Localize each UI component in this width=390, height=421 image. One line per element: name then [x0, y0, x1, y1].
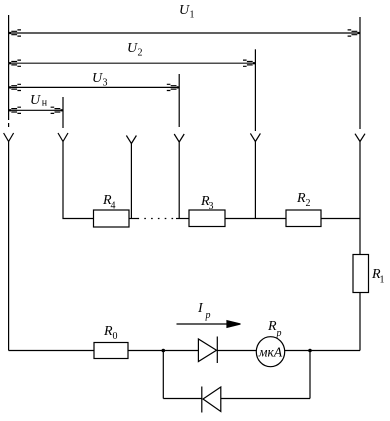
diode D1 [198, 337, 217, 364]
voltage range arrow U1 [9, 30, 360, 36]
svg-text:н: н [42, 98, 48, 109]
svg-text:2: 2 [138, 48, 143, 59]
label R2 [296, 191, 311, 209]
svg-text:1: 1 [190, 10, 195, 21]
node terminator line for U2 [254, 49, 256, 131]
resistor R1 [353, 255, 369, 293]
wire right rail below R1 [359, 293, 361, 351]
label Uh [30, 93, 48, 109]
wire left rail vertical [8, 15, 10, 120]
svg-text:3: 3 [209, 201, 214, 212]
tap arrow 2 [58, 133, 68, 142]
current arrow Ip [177, 321, 241, 328]
resistor R4 [94, 210, 130, 227]
svg-text:U: U [30, 93, 41, 108]
svg-text:4: 4 [111, 201, 116, 212]
svg-text:U: U [127, 41, 138, 56]
label U3 [92, 71, 108, 89]
voltage range arrow U2 [9, 60, 256, 66]
wire tap 4 stem [178, 142, 180, 219]
wire right rail top vertical [359, 17, 361, 129]
voltage range arrow U3 [9, 84, 180, 90]
wire bottom left horizontal to R0 [9, 350, 94, 352]
wire tap 5 stem [254, 142, 256, 219]
svg-text:U: U [179, 3, 190, 18]
resistor R0 [94, 343, 128, 359]
svg-text:R: R [103, 324, 113, 339]
wire bus R4 right [129, 218, 138, 220]
wire D2 to right vertical [221, 398, 310, 400]
svg-text:R: R [296, 191, 306, 206]
label U2 [127, 41, 143, 59]
tap arrow on left rail [4, 133, 14, 142]
wire bus R3 to R2 [225, 218, 286, 220]
node terminator line for Uh [62, 97, 64, 128]
wire dotted bus section [138, 218, 177, 220]
wire R0 to diode D1 [128, 350, 198, 352]
wire right rail to R1 [359, 142, 361, 255]
tap arrow 5 [250, 133, 260, 141]
label R0 [103, 324, 118, 342]
svg-text:p: p [205, 310, 211, 321]
wire tap 2 stem [63, 142, 94, 219]
tap arrow 3 [126, 136, 136, 144]
resistor R3 [189, 210, 225, 227]
wire bottom branch left vertical [162, 351, 164, 399]
svg-text:2: 2 [306, 198, 311, 209]
wire bottom right horizontal [285, 350, 360, 352]
svg-text:U: U [92, 71, 103, 86]
label R1 [371, 267, 385, 286]
label Rp [267, 319, 282, 339]
svg-text:R: R [267, 319, 277, 334]
label U1 [179, 3, 195, 21]
wire bottom branch to D2 [163, 398, 202, 400]
junction dot left [162, 349, 166, 353]
tap arrow 4 [174, 134, 184, 142]
resistor R2 [286, 210, 321, 227]
meter uA [256, 337, 284, 367]
diode D2 [202, 387, 221, 413]
svg-text:мкА: мкА [258, 345, 283, 360]
wire D1 to meter [217, 350, 256, 352]
svg-text:1: 1 [380, 275, 385, 286]
node terminator line for U3 [178, 74, 180, 127]
svg-text:p: p [276, 328, 282, 339]
voltage range arrow Uh [9, 107, 63, 113]
tap arrow on right rail [355, 134, 365, 142]
label Ip [197, 301, 211, 321]
svg-text:3: 3 [103, 78, 108, 89]
junction dot right [308, 349, 312, 353]
wire bottom branch right vertical [309, 351, 311, 399]
label R3 [200, 194, 214, 212]
wire bus R2 to right rail [321, 218, 360, 220]
wire tap 3 stem [130, 144, 132, 219]
wire bus to R3 [176, 218, 189, 220]
svg-text:0: 0 [113, 331, 118, 342]
label R4 [102, 193, 116, 212]
wire left rail dash [8, 123, 10, 127]
wire left rail lower vertical [8, 142, 10, 351]
